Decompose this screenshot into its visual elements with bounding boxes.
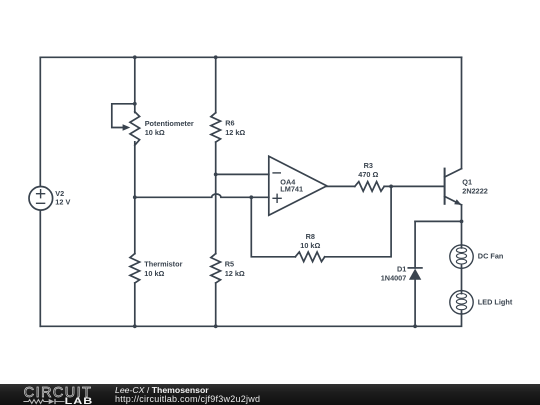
wire D1 anode to bottom rail bbox=[414, 280, 416, 327]
svg-text:1N4007: 1N4007 bbox=[381, 274, 407, 283]
wire op-amp output to R3 bbox=[327, 185, 355, 187]
label R6 12 kOhm bbox=[225, 119, 245, 137]
node pot top terminal / wiper bbox=[133, 102, 137, 106]
wire collector riser to top rail bbox=[461, 57, 463, 168]
wire flyback branch horizontal bbox=[415, 220, 461, 222]
svg-text:R6: R6 bbox=[225, 119, 234, 128]
thermistor body 10 k bbox=[130, 254, 140, 283]
wire top rail bbox=[40, 56, 461, 58]
svg-text:R3: R3 bbox=[364, 161, 373, 170]
resistor R8 body (horizontal) bbox=[295, 252, 324, 262]
wire emitter down to flyback node bbox=[461, 205, 463, 245]
svg-text:10 kΩ: 10 kΩ bbox=[145, 128, 165, 137]
transistor Q1 base bar bbox=[444, 169, 446, 204]
wire pot bottom to thermistor top bbox=[134, 142, 136, 254]
node D1 / bottom rail bbox=[413, 324, 417, 328]
label R3 470 Ohm bbox=[358, 161, 378, 179]
footer bar bbox=[0, 384, 540, 405]
svg-text:12 kΩ: 12 kΩ bbox=[225, 269, 245, 278]
node plus-input tap on pot/thermistor column bbox=[133, 195, 137, 199]
wire R6 column top bbox=[215, 57, 217, 112]
wire R3 to Q1 base bbox=[384, 185, 444, 187]
svg-text:D1: D1 bbox=[397, 265, 406, 274]
node R3 output / feedback junction bbox=[389, 185, 393, 189]
label R5 12 kOhm bbox=[225, 260, 245, 278]
label OA4 LM741 bbox=[280, 178, 303, 194]
LED Light lamp symbol bbox=[450, 291, 473, 314]
label V2 value 12 V bbox=[55, 189, 70, 207]
node bottom rail / thermistor column bbox=[133, 324, 137, 328]
diode D1 triangle bbox=[409, 269, 421, 280]
op-amp plus pin mark bbox=[273, 194, 281, 202]
svg-text:470 Ω: 470 Ω bbox=[358, 170, 378, 179]
svg-text:LM741: LM741 bbox=[280, 185, 303, 194]
svg-text:LAB: LAB bbox=[65, 396, 94, 405]
logo wire after diode bbox=[56, 401, 65, 403]
wire R6 bottom to R5 top bbox=[215, 142, 217, 254]
diode D1 cathode bar bbox=[408, 267, 422, 269]
wire left rail lower (V2 minus terminal to bottom rail) bbox=[39, 210, 41, 326]
node emitter / flyback diode junction bbox=[460, 220, 464, 224]
op-amp U OA4 triangle bbox=[269, 156, 327, 215]
potentiometer wiper loop wire bbox=[112, 104, 135, 128]
label R8 10 kOhm bbox=[300, 232, 320, 250]
CircuitLab logo bbox=[23, 384, 103, 405]
DC fan motor symbol bbox=[450, 245, 473, 268]
wire inverting input (R6/R5 tap to op-amp minus) bbox=[216, 173, 269, 175]
svg-text:12 kΩ: 12 kΩ bbox=[225, 128, 245, 137]
potentiometer body 10 k bbox=[130, 112, 140, 145]
logo resistor squiggle bbox=[23, 400, 48, 404]
svg-text:Thermistor: Thermistor bbox=[144, 260, 182, 269]
wire pot column top bbox=[134, 57, 136, 112]
label Potentiometer 10 kOhm bbox=[145, 119, 194, 137]
wire LED bottom corner to bottom rail bbox=[40, 314, 461, 326]
credit text bbox=[115, 384, 260, 404]
wire R5 bottom to bottom rail bbox=[215, 283, 217, 326]
svg-text:R8: R8 bbox=[306, 232, 315, 241]
wire thermistor bottom to bottom rail bbox=[134, 283, 136, 326]
node feedback tap on plus input wire bbox=[249, 195, 253, 199]
op-amp minus pin mark bbox=[273, 172, 280, 174]
wire flyback branch drop to D1 cathode bbox=[414, 221, 416, 267]
label D1 1N4007 bbox=[381, 265, 407, 283]
svg-text:Potentiometer: Potentiometer bbox=[145, 119, 194, 128]
resistor R3 body (horizontal) bbox=[355, 182, 384, 192]
svg-text:10 kΩ: 10 kΩ bbox=[144, 269, 164, 278]
svg-text:10 kΩ: 10 kΩ bbox=[300, 241, 320, 250]
svg-text:R5: R5 bbox=[225, 260, 234, 269]
label Q1 2N2222 bbox=[462, 177, 488, 195]
node top rail / pot column bbox=[133, 55, 137, 59]
transistor Q1 emitter arrow bbox=[454, 199, 461, 205]
wire left rail upper (V+ rail from top wire to V2 plus terminal) bbox=[39, 57, 41, 186]
wire R8 to output junction riser bbox=[325, 186, 391, 256]
wire fan to LED lamp bbox=[461, 268, 463, 290]
svg-text:DC Fan: DC Fan bbox=[478, 252, 504, 261]
label DC Fan bbox=[478, 252, 504, 261]
logo diode bbox=[49, 399, 55, 404]
node bottom rail / R5 column bbox=[214, 324, 218, 328]
wire non-inverting input with hop over R6 column bbox=[135, 194, 269, 197]
svg-text:2N2222: 2N2222 bbox=[462, 187, 488, 196]
svg-text:Q1: Q1 bbox=[462, 177, 472, 186]
transistor Q1 collector diagonal bbox=[445, 169, 462, 177]
svg-text:LED Light: LED Light bbox=[478, 297, 513, 306]
wire feedback left drop (plus input to R8) bbox=[251, 197, 295, 256]
potentiometer wiper arrow bbox=[123, 124, 131, 130]
label LED Light bbox=[478, 297, 513, 306]
svg-text:12 V: 12 V bbox=[55, 197, 70, 206]
label Thermistor 10 kOhm bbox=[144, 260, 182, 278]
node minus-input tap on R6/R5 column bbox=[214, 173, 218, 177]
resistor R5 body bbox=[211, 254, 221, 283]
voltage source V2 bbox=[29, 187, 53, 211]
node top rail / R6 column bbox=[214, 55, 218, 59]
resistor R6 body bbox=[211, 113, 221, 142]
transistor Q1 emitter diagonal bbox=[445, 196, 462, 205]
